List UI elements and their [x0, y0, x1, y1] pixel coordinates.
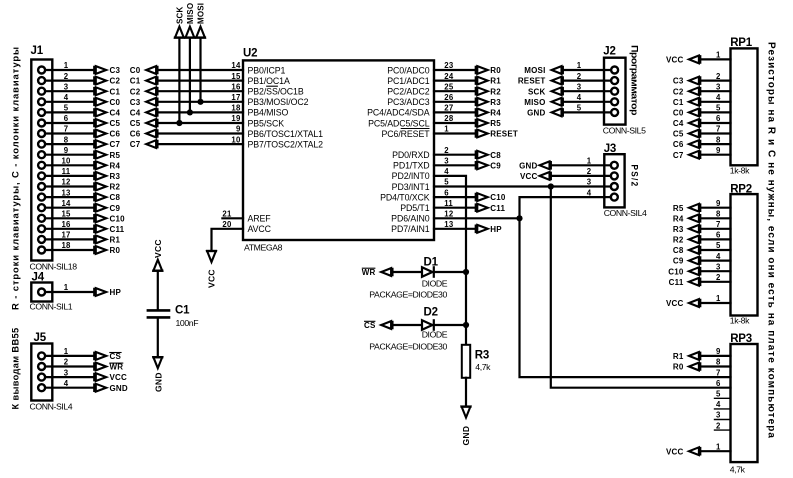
- svg-text:VCC: VCC: [207, 269, 217, 288]
- svg-text:RP2: RP2: [730, 183, 752, 195]
- J1 pin 8 wire: [45, 143, 94, 145]
- U2 pin name PB6/TOSC1/XTAL1: [248, 129, 324, 139]
- U2 pin name PD1/TXD: [393, 161, 429, 171]
- svg-text:GND: GND: [461, 426, 471, 446]
- net label C1 (to U2): [130, 76, 158, 85]
- net label C2 (RP1): [673, 87, 700, 96]
- J3 pin 3: [611, 183, 618, 190]
- svg-text:RESET: RESET: [490, 130, 518, 139]
- svg-text:R3: R3: [110, 172, 121, 181]
- net label R0: [94, 246, 120, 255]
- J1 pin 18 wire: [45, 249, 94, 251]
- J3 pin 4: [611, 194, 618, 201]
- net label C5 (to U2): [130, 119, 158, 128]
- net label C4 (RP1): [673, 119, 700, 128]
- J5 pin 3 wire: [45, 376, 94, 378]
- svg-text:D1: D1: [424, 256, 439, 268]
- svg-text:2: 2: [577, 72, 582, 81]
- net label R0: [476, 66, 502, 75]
- U2 pin AREF stub: [222, 217, 243, 219]
- wire U2 to HP: [434, 228, 476, 230]
- resistor pack RP3: [731, 344, 758, 462]
- net label GND (J3): [519, 161, 551, 170]
- wire MOSI: [199, 38, 201, 102]
- svg-text:19: 19: [231, 114, 241, 123]
- diode D2: [422, 319, 434, 331]
- svg-text:J3: J3: [604, 143, 616, 155]
- svg-text:6: 6: [716, 231, 721, 240]
- svg-text:R1: R1: [110, 236, 121, 245]
- J1 pin 11: [38, 172, 45, 179]
- svg-text:17: 17: [61, 231, 70, 240]
- connector J3: [604, 154, 624, 207]
- svg-text:5: 5: [716, 241, 721, 250]
- svg-text:PC0/ADC0: PC0/ADC0: [387, 65, 429, 75]
- svg-text:6: 6: [64, 114, 69, 123]
- net label R2: [476, 87, 502, 96]
- J1 pin 1 wire: [45, 69, 94, 71]
- svg-text:5: 5: [716, 390, 721, 399]
- svg-text:C11: C11: [110, 225, 125, 234]
- J1 pin 17: [38, 236, 45, 243]
- svg-text:4: 4: [444, 167, 449, 176]
- J2 pin 2: [611, 77, 618, 84]
- wire C1 to GND: [157, 319, 159, 358]
- net label C10 (RP2): [668, 267, 700, 276]
- U2 pin name PB7/TOSC2/XTAL2: [248, 139, 324, 149]
- junction PD6 / J3 pin 4: [516, 215, 522, 221]
- J5 pin 1: [38, 352, 45, 359]
- RP1 pin 8 wire: [700, 143, 730, 145]
- svg-text:2: 2: [716, 273, 721, 282]
- svg-text:16: 16: [61, 220, 71, 229]
- net label R4 (RP2): [673, 214, 700, 223]
- svg-text:2: 2: [444, 146, 449, 155]
- svg-text:3: 3: [64, 368, 69, 377]
- wire U2 to R0: [434, 69, 476, 71]
- wire C0 to U2 pin 14: [158, 69, 244, 71]
- net label VCC (RP3): [666, 447, 700, 456]
- RP2 pin 9 wire: [700, 207, 730, 209]
- svg-text:9: 9: [716, 347, 721, 356]
- U2 pin name PC4/ADC4/SDA: [367, 108, 430, 118]
- svg-text:PB5/SCK: PB5/SCK: [248, 118, 285, 128]
- power VCC (AVCC) arrow: [206, 251, 217, 288]
- junction MISO: [187, 109, 193, 115]
- RP1 pin 5 wire: [700, 111, 730, 113]
- RP2 pin 2 wire: [700, 281, 730, 283]
- RP1 pin 2 wire: [700, 79, 730, 81]
- U2 pin name PC1/ADC1: [387, 76, 429, 86]
- net label HP (J4): [94, 288, 121, 297]
- J1 pin 3 wire: [45, 90, 94, 92]
- U2 pin name PD3/INT1: [392, 182, 430, 192]
- wire PD3/INT1 (pin 5) to J3 pin 3: [434, 185, 604, 187]
- svg-text:4: 4: [716, 252, 721, 261]
- net label C9 (RP2): [673, 256, 700, 265]
- svg-text:7: 7: [64, 125, 69, 134]
- svg-text:C3: C3: [673, 77, 684, 86]
- svg-text:R3: R3: [475, 350, 489, 362]
- U2 pin name PD6/AIN0: [391, 214, 430, 224]
- J5 pin 3: [38, 374, 45, 381]
- wire U2 to R3: [434, 101, 476, 103]
- wire D2 to bus: [435, 324, 466, 326]
- net label VCC (J3): [520, 172, 551, 181]
- wire J3 pin 4 to RP3 pin 7: [520, 197, 731, 377]
- svg-text:PD0/RXD: PD0/RXD: [392, 150, 429, 160]
- net label C6: [94, 129, 120, 138]
- svg-text:20: 20: [222, 220, 232, 229]
- svg-text:2: 2: [64, 358, 69, 367]
- svg-text:MOSI: MOSI: [524, 66, 545, 75]
- svg-text:C5: C5: [130, 119, 141, 128]
- J2 pin 5 wire: [563, 111, 611, 113]
- connector J2: [604, 58, 626, 125]
- net label VCC (RP1): [666, 55, 700, 64]
- svg-text:14: 14: [61, 199, 71, 208]
- svg-text:6: 6: [716, 114, 721, 123]
- svg-text:PC4/ADC4/SDA: PC4/ADC4/SDA: [367, 108, 430, 118]
- svg-text:R1: R1: [490, 77, 501, 86]
- J3 pin 4 stub: [604, 196, 611, 198]
- svg-text:ATMEGA8: ATMEGA8: [244, 243, 283, 253]
- RP1 pin 3 wire: [700, 90, 730, 92]
- svg-text:C8: C8: [673, 246, 684, 255]
- junction PD3 branch: [548, 183, 554, 189]
- svg-text:3: 3: [64, 82, 69, 91]
- ground (R3): [460, 407, 471, 446]
- U2 pin name PD7/AIN1: [391, 224, 430, 234]
- svg-text:PD6/AIN0: PD6/AIN0: [391, 214, 430, 224]
- svg-text:6: 6: [716, 379, 721, 388]
- svg-text:18: 18: [231, 104, 241, 113]
- J2 pin 4 wire: [563, 101, 611, 103]
- svg-text:PD2/INT0: PD2/INT0: [392, 171, 430, 181]
- J2 pin 3: [611, 88, 618, 95]
- svg-text:2: 2: [587, 167, 592, 176]
- svg-text:PB2/SS/OC1B: PB2/SS/OC1B: [248, 87, 304, 97]
- wire U2 to RESET: [434, 132, 476, 134]
- svg-text:C10: C10: [668, 267, 684, 276]
- J1 pin 13: [38, 194, 45, 201]
- svg-text:SCK: SCK: [528, 87, 546, 96]
- U2 pin name PD0/RXD: [392, 150, 429, 160]
- net label R3: [476, 98, 502, 107]
- J1 pin 7: [38, 130, 45, 137]
- J1 pin 12 wire: [45, 185, 94, 187]
- svg-text:1: 1: [587, 157, 592, 166]
- net label CS (J5): [94, 352, 121, 361]
- net label C3: [94, 66, 120, 75]
- svg-text:12: 12: [444, 210, 454, 219]
- svg-text:R3: R3: [490, 98, 501, 107]
- svg-text:C10: C10: [110, 214, 126, 223]
- J3 pin 1: [611, 162, 618, 169]
- svg-text:10: 10: [231, 135, 241, 144]
- J1 pin 16 wire: [45, 228, 94, 230]
- J1 pin 14: [38, 204, 45, 211]
- wire U2 to R5: [434, 122, 476, 124]
- svg-text:R2: R2: [110, 183, 121, 192]
- svg-text:GND: GND: [153, 372, 163, 392]
- net label R2: [94, 182, 120, 191]
- svg-text:PD5/T1: PD5/T1: [400, 203, 429, 213]
- wire D1 to bus: [435, 271, 466, 273]
- svg-text:CONN-SIL18: CONN-SIL18: [30, 262, 78, 272]
- net label C7: [94, 140, 120, 149]
- RP3 pin 1 wire: [700, 450, 730, 452]
- J5 pin 4 wire: [45, 387, 94, 389]
- wire C4 to U2 pin 18: [158, 111, 244, 113]
- net label R3: [94, 172, 120, 181]
- svg-text:C10: C10: [490, 193, 506, 202]
- svg-text:25: 25: [444, 82, 454, 91]
- net label C8: [476, 150, 502, 159]
- net MISO stub arrow: [184, 3, 195, 38]
- svg-text:C8: C8: [110, 193, 121, 202]
- svg-text:R2: R2: [673, 236, 684, 245]
- svg-text:RP1: RP1: [730, 37, 753, 49]
- RP2 pin 3 wire: [700, 270, 730, 272]
- svg-text:5: 5: [716, 104, 721, 113]
- svg-text:R4: R4: [110, 161, 121, 170]
- RP2 pin 5 wire: [700, 249, 730, 251]
- svg-text:R5: R5: [673, 204, 684, 213]
- J1 pin 3: [38, 88, 45, 95]
- net label C1: [94, 87, 120, 96]
- RP3 pin 9 wire: [700, 355, 730, 357]
- J5 pin 4: [38, 384, 45, 391]
- J1 pin 1: [38, 67, 45, 74]
- svg-text:8: 8: [716, 210, 721, 219]
- svg-text:4,7k: 4,7k: [730, 465, 746, 475]
- J5 pin 2: [38, 363, 45, 370]
- svg-text:10: 10: [61, 157, 71, 166]
- svg-text:3: 3: [587, 178, 592, 187]
- net label C11 (RP2): [669, 278, 701, 287]
- U2 pin name PC5/ADC5/SCL: [368, 118, 430, 128]
- RP1 pin 1 wire: [700, 58, 730, 60]
- net label R4: [476, 108, 502, 117]
- junction MOSI: [197, 99, 203, 105]
- net label WR (J5): [94, 362, 123, 371]
- J1 pin 16: [38, 225, 45, 232]
- svg-text:4: 4: [587, 188, 592, 197]
- svg-text:R0: R0: [673, 363, 684, 372]
- RP2 pin 8 wire: [700, 217, 730, 219]
- svg-text:PC3/ADC3: PC3/ADC3: [387, 97, 429, 107]
- net label HP: [476, 225, 503, 234]
- svg-text:1: 1: [444, 125, 449, 134]
- J4 pin 1 wire: [45, 291, 94, 293]
- svg-text:15: 15: [231, 72, 241, 81]
- svg-text:13: 13: [61, 188, 71, 197]
- svg-text:RP3: RP3: [730, 333, 752, 345]
- svg-text:R1: R1: [673, 352, 684, 361]
- net label R1: [94, 235, 120, 244]
- svg-text:C9: C9: [673, 257, 684, 266]
- svg-text:J5: J5: [34, 332, 47, 344]
- svg-text:CS: CS: [110, 352, 122, 361]
- J1 pin 15 wire: [45, 217, 94, 219]
- svg-text:6: 6: [444, 188, 449, 197]
- net label R5: [476, 119, 502, 128]
- svg-text:AREF: AREF: [248, 214, 272, 224]
- J1 pin 4 wire: [45, 101, 94, 103]
- RP3 pin 3 stub: [715, 419, 731, 421]
- wire WR arrow to D1: [393, 271, 422, 273]
- net label C6 (RP1): [673, 140, 700, 149]
- wire MISO: [189, 38, 191, 112]
- svg-text:9: 9: [64, 146, 69, 155]
- U2 pin name PD5/T1: [400, 203, 429, 213]
- svg-text:3: 3: [716, 262, 721, 271]
- J4 pin 1: [38, 289, 45, 296]
- J2 pin 4: [611, 98, 618, 105]
- svg-text:VCC: VCC: [666, 56, 684, 65]
- net label GND (J5): [94, 383, 128, 392]
- RP2 pin 7 wire: [700, 228, 730, 230]
- svg-text:3: 3: [577, 82, 582, 91]
- svg-text:4,7k: 4,7k: [475, 362, 491, 372]
- svg-text:PB6/TOSC1/XTAL1: PB6/TOSC1/XTAL1: [248, 129, 324, 139]
- U2 pin name PC6/RESET: [382, 129, 431, 139]
- net label C5: [94, 119, 120, 128]
- net label C7 (RP1): [673, 150, 700, 159]
- net label C8 (RP2): [673, 246, 700, 255]
- net label C7 (to U2): [130, 140, 158, 149]
- net label C9: [94, 203, 120, 212]
- U2 pin name PB3/MOSI/OC2: [248, 97, 309, 107]
- net label VCC (J5): [94, 373, 127, 382]
- svg-text:Резисторы на R и C не нужны, е: Резисторы на R и C не нужны, если они ес…: [766, 42, 777, 439]
- svg-text:9: 9: [236, 125, 241, 134]
- svg-text:C2: C2: [130, 87, 141, 96]
- svg-text:12: 12: [61, 178, 71, 187]
- connector J4: [31, 283, 52, 302]
- wire C6 to U2 pin 9: [158, 132, 244, 134]
- J1 pin 14 wire: [45, 207, 94, 209]
- svg-text:R2: R2: [490, 87, 501, 96]
- svg-text:PB4/MISO: PB4/MISO: [248, 108, 289, 118]
- RP1 pin 6 wire: [700, 122, 730, 124]
- svg-text:14: 14: [231, 61, 241, 70]
- svg-text:C3: C3: [130, 98, 141, 107]
- net label C6 (to U2): [130, 129, 158, 138]
- net label GND: [527, 108, 563, 117]
- svg-text:HP: HP: [490, 225, 502, 234]
- svg-text:5: 5: [577, 104, 582, 113]
- svg-text:GND: GND: [110, 384, 128, 393]
- wire U2 to C11: [434, 207, 476, 209]
- svg-text:7: 7: [716, 220, 721, 229]
- svg-text:WR: WR: [110, 363, 124, 372]
- net label C10: [94, 214, 125, 223]
- wire U2 to R2: [434, 90, 476, 92]
- wire C7 to U2 pin 10: [158, 143, 244, 145]
- svg-text:4: 4: [64, 93, 69, 102]
- net label C4 (to U2): [130, 108, 158, 117]
- svg-text:5: 5: [64, 104, 69, 113]
- RP3 pin 5 stub: [715, 397, 731, 399]
- J1 pin 6 wire: [45, 122, 94, 124]
- net label VCC (RP2): [666, 299, 700, 308]
- svg-text:PD3/INT1: PD3/INT1: [392, 182, 430, 192]
- svg-text:PC6/RESET: PC6/RESET: [382, 129, 431, 139]
- net label C2: [94, 76, 120, 85]
- svg-text:8: 8: [64, 135, 69, 144]
- RP3 pin 8 wire: [700, 365, 730, 367]
- svg-text:CONN-SIL5: CONN-SIL5: [603, 126, 646, 136]
- net label C2 (to U2): [130, 87, 158, 96]
- RP2 pin 6 wire: [700, 238, 730, 240]
- J1 pin 9 wire: [45, 154, 94, 156]
- svg-text:C11: C11: [669, 278, 684, 287]
- svg-text:7: 7: [716, 368, 721, 377]
- svg-text:PC2/ADC2: PC2/ADC2: [387, 87, 429, 97]
- svg-text:11: 11: [444, 199, 453, 208]
- J3 pin 3 stub: [604, 185, 611, 187]
- svg-text:D2: D2: [424, 306, 438, 318]
- svg-text:R4: R4: [490, 109, 501, 118]
- svg-text:13: 13: [444, 220, 454, 229]
- svg-text:C1: C1: [175, 305, 190, 317]
- svg-text:PB3/MOSI/OC2: PB3/MOSI/OC2: [248, 97, 309, 107]
- svg-text:PACKAGE=DIODE30: PACKAGE=DIODE30: [369, 290, 447, 300]
- svg-text:23: 23: [444, 61, 454, 70]
- svg-text:R5: R5: [490, 119, 501, 128]
- net label C11: [476, 203, 506, 212]
- wire U2 to R1: [434, 79, 476, 81]
- svg-text:C11: C11: [490, 204, 505, 213]
- svg-text:1: 1: [64, 61, 69, 70]
- J2 pin 1: [611, 67, 618, 74]
- ground (C1): [152, 357, 163, 392]
- J1 pin 9: [38, 151, 45, 158]
- svg-text:1: 1: [716, 51, 721, 60]
- svg-text:R4: R4: [673, 214, 684, 223]
- net label SCK: [528, 87, 563, 96]
- resistor pack RP2: [731, 194, 758, 315]
- svg-text:C3: C3: [110, 66, 121, 75]
- svg-text:C1: C1: [130, 77, 141, 86]
- net label CS (D2 anode): [364, 321, 393, 330]
- svg-text:R - строки клавиатуры, C - кол: R - строки клавиатуры, C - колонки клави…: [11, 46, 22, 310]
- wire CS arrow to D2: [393, 324, 422, 326]
- svg-text:CONN-SIL1: CONN-SIL1: [30, 302, 73, 312]
- U2 pin name PB1/OC1A: [248, 76, 290, 86]
- svg-text:C4: C4: [130, 109, 141, 118]
- svg-text:1: 1: [716, 442, 721, 451]
- svg-text:C9: C9: [490, 161, 501, 170]
- wire VCC to C1: [157, 271, 159, 309]
- svg-text:VCC: VCC: [666, 299, 684, 308]
- J3 pin 1 wire: [551, 164, 611, 166]
- net label C1 (RP1): [673, 98, 700, 107]
- svg-text:1k-8k: 1k-8k: [730, 316, 750, 326]
- J2 pin 1 wire: [563, 69, 611, 71]
- svg-text:3: 3: [716, 411, 721, 420]
- U2 pin name PC2/ADC2: [387, 87, 429, 97]
- svg-text:8: 8: [716, 358, 721, 367]
- wire C5 to U2 pin 19: [158, 122, 244, 124]
- RP2 pin 1 wire: [700, 302, 730, 304]
- svg-text:PB0/ICP1: PB0/ICP1: [248, 65, 286, 75]
- svg-text:C7: C7: [110, 140, 121, 149]
- J3 pin 2: [611, 172, 618, 179]
- J1 pin 5 wire: [45, 111, 94, 113]
